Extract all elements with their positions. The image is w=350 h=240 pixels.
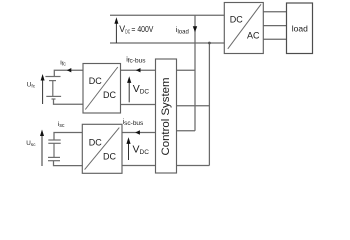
- converter U1: fuel cell DC/DC block: [83, 64, 121, 114]
- wire: fuel cell top wire to converter: [54, 70, 83, 76]
- svg-text:Control System: Control System: [160, 78, 172, 156]
- svg-text:DC: DC: [230, 15, 243, 25]
- svg-text:DC: DC: [125, 29, 130, 35]
- svg-text:DC: DC: [103, 151, 116, 161]
- wire: inverter to load line 2: [263, 25, 286, 27]
- block: load: [287, 3, 313, 54]
- svg-text:DC: DC: [103, 90, 116, 100]
- block: Control System: [156, 59, 177, 173]
- wire: inverter to load line 3: [263, 38, 286, 40]
- arrow: VDC sense arrow (sc side): [126, 137, 130, 160]
- arrow: iload current arrowhead on vertical A: [193, 26, 197, 32]
- inverter U3: DC/AC block: [224, 3, 263, 54]
- svg-text:VDC: VDC: [133, 83, 150, 95]
- wire: control system to node A (ifc-bus sense): [177, 69, 196, 71]
- svg-text:= 400V: = 400V: [131, 24, 153, 34]
- arrow: VDC = 400V bus voltage arrow: [114, 17, 118, 43]
- wire: vertical B negative return riser: [208, 43, 210, 166]
- arrow: Usc voltage arrow: [40, 130, 44, 167]
- wire: inverter to load line 1: [263, 11, 286, 13]
- wire: isc-bus wire converter to control system: [122, 132, 156, 134]
- wire: sc negative rail to vertical B: [177, 165, 210, 167]
- arrow: ifc-bus current arrowhead: [136, 68, 141, 72]
- svg-text:iload: iload: [176, 25, 189, 36]
- capacitor Usc (supercapacitor symbol): [48, 140, 61, 161]
- svg-text:ifc: ifc: [60, 59, 66, 67]
- wire: DC bus positive rail: [110, 14, 224, 16]
- wire: vertical A iload riser to positive bus: [194, 15, 196, 131]
- wire: control system to node A (isc-bus sense): [177, 130, 196, 132]
- converter U2: supercap DC/DC block: [82, 124, 122, 173]
- wire: supercap bottom wire to converter: [54, 161, 83, 166]
- svg-text:DC: DC: [89, 76, 102, 86]
- svg-text:Usc: Usc: [26, 140, 36, 148]
- wire: fc negative rail converter to control system: [121, 104, 156, 106]
- svg-text:load: load: [292, 24, 308, 34]
- wire: fuel cell bottom wire to converter: [54, 99, 84, 104]
- battery Ufc (fuel cell symbol): [45, 77, 61, 100]
- svg-text:V: V: [119, 24, 125, 34]
- arrow: ifc current arrowhead: [67, 68, 72, 72]
- arrow: VDC sense arrow (fc side): [127, 76, 131, 102]
- svg-text:DC: DC: [89, 137, 102, 147]
- svg-text:AC: AC: [247, 30, 260, 40]
- wire: sc negative rail converter to control system: [122, 165, 156, 167]
- node: junction of vertical B with negative bus: [208, 42, 211, 45]
- svg-text:isc: isc: [58, 121, 65, 129]
- wire: fc negative rail to vertical B: [177, 105, 210, 107]
- svg-text:ifc-bus: ifc-bus: [126, 56, 146, 64]
- wire: ifc-bus wire converter to control system: [121, 69, 156, 71]
- wire: DC bus negative rail: [110, 42, 224, 44]
- wire: supercap top wire to converter: [54, 133, 82, 141]
- arrow: Ufc voltage arrow: [41, 74, 45, 104]
- svg-text:VDC: VDC: [133, 144, 150, 156]
- svg-text:Ufc: Ufc: [27, 81, 36, 89]
- svg-text:isc-bus: isc-bus: [123, 119, 144, 127]
- arrow: isc-bus current arrowhead: [135, 130, 140, 134]
